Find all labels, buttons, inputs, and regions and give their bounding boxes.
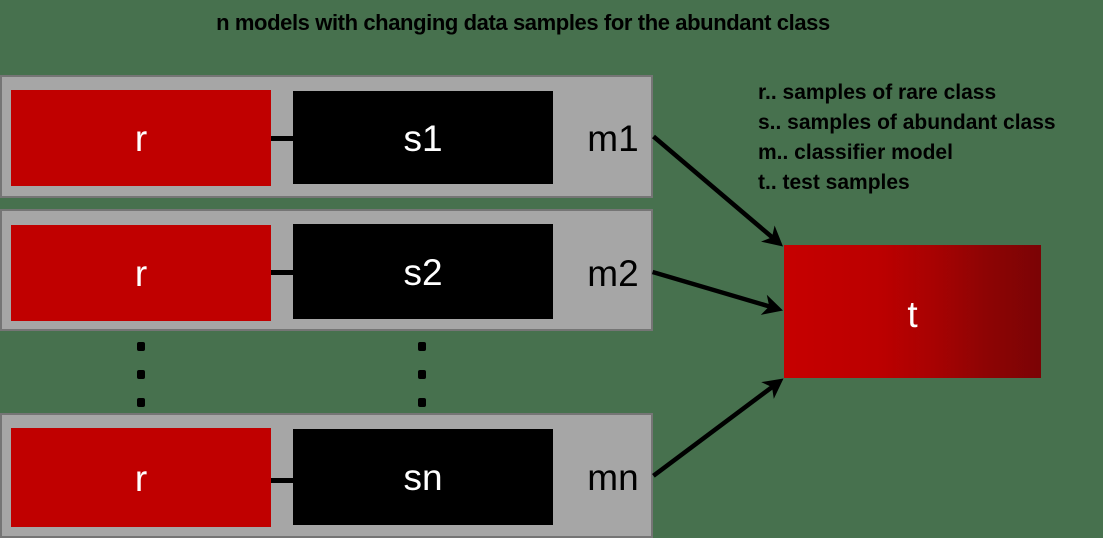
- row m2 red box r: [11, 225, 271, 321]
- arrow from m2 to t: [653, 272, 783, 315]
- title: [0, 10, 1046, 36]
- ellipsis dots column 2: [418, 342, 426, 351]
- row mn connector: [271, 478, 293, 483]
- arrow from m1 to t: [654, 137, 784, 247]
- row mn red box r: [11, 428, 271, 527]
- row m1 connector: [271, 136, 293, 141]
- row mn bar: [0, 413, 653, 538]
- row m2 label m2: [578, 253, 648, 295]
- arrow from mn to t: [653, 379, 783, 476]
- row m2 black box s2: [293, 224, 553, 319]
- t box (gradient): [784, 245, 1041, 378]
- row m1 label m1: [578, 118, 648, 160]
- row mn black box sn: [293, 429, 553, 525]
- row m2 bar: [0, 209, 653, 331]
- row mn label mn: [578, 457, 648, 499]
- row m1 red box r: [11, 90, 271, 186]
- row m1 black box s1: [293, 91, 553, 184]
- row m1 bar: [0, 75, 653, 198]
- row m2 connector: [271, 270, 293, 275]
- ellipsis dots column 1: [137, 342, 145, 351]
- legend: [758, 78, 1056, 198]
